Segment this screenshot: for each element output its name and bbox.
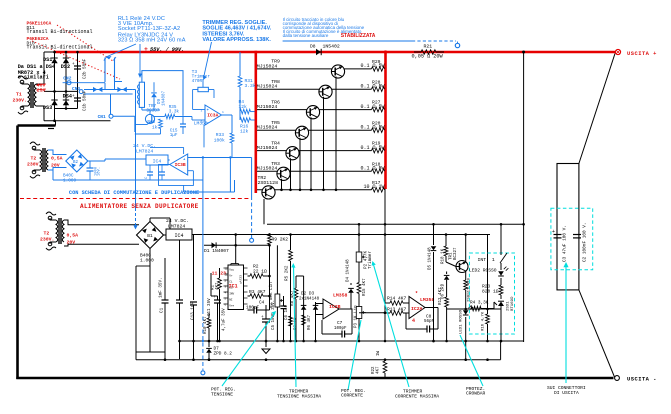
svg-text:D2 D3: D2 D3	[301, 292, 315, 297]
wire emitter red bus right	[384, 51, 387, 189]
svg-text:12k: 12k	[239, 104, 248, 110]
svg-text:0,05 Ω 20W: 0,05 Ω 20W	[412, 54, 444, 60]
svg-text:12: 12	[225, 268, 229, 271]
svg-text:3.3k: 3.3k	[245, 83, 256, 89]
svg-text:Transil Bi-directional: Transil Bi-directional	[27, 45, 93, 51]
wire TR8 collector drop	[323, 97, 325, 190]
rectifier bridge B1	[137, 222, 164, 249]
wire transil leader dotted 2	[32, 41, 120, 79]
svg-text:11: 11	[225, 274, 229, 277]
wire TR9 collector drop	[335, 77, 337, 190]
wire DS node column B	[65, 52, 67, 109]
IC4 regulator 7824	[166, 229, 192, 240]
svg-text:LED1 ROSSO: LED1 ROSSO	[460, 309, 464, 334]
svg-text:R12 4K7: R12 4K7	[439, 287, 443, 305]
svg-text:C6 1nF: C6 1nF	[285, 304, 289, 320]
svg-text:R16 4,7K: R16 4,7K	[482, 311, 486, 331]
trimmer P2 4.7K	[356, 252, 362, 262]
svg-text:DS4: DS4	[63, 93, 72, 99]
svg-text:16V.: 16V.	[98, 167, 102, 176]
diode DS3	[51, 100, 57, 105]
callout PROTEZ CROWBAR	[460, 335, 483, 386]
svg-text:100k: 100k	[214, 138, 225, 144]
wire blue dashdot x251	[251, 158, 253, 197]
wire rail 24V out	[164, 234, 167, 236]
svg-text:0.1 Ω 5W: 0.1 Ω 5W	[360, 125, 384, 131]
wire blue bottom rail dup	[53, 179, 203, 181]
svg-text:TR1: TR1	[450, 252, 454, 260]
transistor TR3 MJ15024	[277, 167, 290, 180]
resistor R10 4K7	[207, 318, 211, 328]
svg-text:0,5A: 0,5A	[67, 233, 79, 239]
svg-text:D4 1N4148: D4 1N4148	[347, 259, 351, 282]
transistor TR1 BC327	[456, 261, 468, 273]
svg-text:BC327: BC327	[454, 247, 458, 260]
svg-text:USCITA +: USCITA +	[627, 51, 657, 57]
transistor TR4 MJ15024	[286, 147, 299, 160]
resistor R12 4K7	[445, 297, 449, 307]
resistor R5 2K2	[289, 250, 293, 261]
svg-text:MJ15024: MJ15024	[257, 84, 278, 90]
diode DS1	[51, 58, 57, 63]
diode D8	[316, 49, 321, 55]
svg-text:R33: R33	[216, 132, 225, 138]
wire crowbar row	[447, 308, 501, 310]
svg-text:CN3: CN3	[72, 86, 80, 92]
wire TR4 collector drop	[290, 158, 292, 190]
svg-text:C8: C8	[426, 315, 432, 320]
svg-text:B1: B1	[147, 233, 153, 239]
transformer T2 (no duplicator)	[46, 212, 56, 215]
svg-text:0.1 Ω 5W: 0.1 Ω 5W	[360, 104, 384, 110]
IC1 uA723	[228, 265, 244, 310]
node CN2	[67, 81, 71, 85]
svg-text:-: -	[183, 172, 185, 176]
svg-text:DS3: DS3	[43, 105, 52, 111]
potentiometer P3 1K	[356, 307, 362, 319]
svg-text:TENSIONE: TENSIONE	[211, 392, 233, 398]
svg-text:INV: INV	[229, 292, 234, 295]
svg-text:R36: R36	[147, 120, 155, 125]
diode DS4	[63, 100, 69, 105]
svg-text:BT169D: BT169D	[511, 296, 515, 311]
svg-text:CS: CS	[229, 286, 233, 289]
SCR BT169D	[498, 302, 504, 307]
svg-text:R1: R1	[212, 284, 216, 290]
wire P3 wiper row	[359, 312, 385, 314]
svg-text:2: 2	[201, 121, 203, 124]
node USCITA - terminal	[615, 376, 620, 381]
wire CN1 row	[113, 115, 135, 117]
svg-text:STABILIZZATA: STABILIZZATA	[341, 33, 376, 39]
resistor R7 1K	[289, 316, 293, 326]
wire +V bus top	[55, 51, 616, 54]
wire TR5 collector drop	[299, 138, 301, 190]
resistor R6 4K7	[302, 315, 306, 325]
svg-text:R10 4K7: R10 4K7	[204, 316, 208, 334]
zener D7 ZPD8.2	[206, 349, 212, 353]
resistor R11 470	[464, 280, 468, 290]
wire upper rail	[267, 223, 524, 225]
svg-text:Trimmer: Trimmer	[368, 251, 373, 269]
svg-text:IC3B: IC3B	[175, 162, 186, 168]
svg-text:dalla tensione ausiliare: dalla tensione ausiliare	[283, 33, 329, 38]
potentiometer P1 50K	[275, 294, 280, 307]
svg-text:CROWBAR: CROWBAR	[466, 391, 486, 397]
svg-text:C2b 50mF: C2b 50mF	[83, 58, 88, 79]
svg-text:*: *	[415, 291, 418, 297]
wire emitter row R18	[257, 170, 372, 172]
svg-text:DS1: DS1	[43, 57, 52, 63]
capacitor C2 100nF	[573, 234, 581, 236]
wire blue bottom link	[183, 185, 185, 192]
leader TRIMMER to T3	[204, 42, 212, 78]
svg-text:1mF 35V.: 1mF 35V.	[159, 277, 164, 298]
capacitor C2b	[74, 65, 81, 67]
svg-text:CL: CL	[229, 280, 233, 283]
resistor R15 4K7	[357, 283, 361, 294]
resistor R16 4.7K	[486, 314, 490, 324]
diode D4 1N4148	[348, 289, 354, 293]
op-amp IC2A	[409, 297, 425, 319]
resistor R1	[218, 278, 222, 289]
node USCITA + terminal	[615, 49, 620, 54]
svg-text:2SD1128: 2SD1128	[258, 180, 279, 186]
svg-text:230V.: 230V.	[13, 98, 27, 104]
diode DS2	[63, 58, 69, 63]
svg-text:100pF: 100pF	[334, 327, 347, 331]
callout POT REG TENSIONE	[222, 313, 275, 386]
wire IC1 top pins	[231, 263, 239, 265]
resistor R27	[372, 107, 385, 112]
wire main vertical x385	[384, 189, 386, 341]
svg-text:T2: T2	[44, 231, 50, 237]
capacitor C3 47uF	[554, 234, 562, 236]
svg-text:12k: 12k	[240, 129, 249, 135]
wire B1 + output	[149, 218, 151, 222]
svg-text:D9: D9	[158, 98, 162, 104]
svg-text:LED2 ROSSO: LED2 ROSSO	[469, 268, 497, 274]
transistor TR8 MJ15024	[319, 85, 332, 98]
svg-text:1.000: 1.000	[63, 179, 77, 184]
svg-text:R9 2K2: R9 2K2	[272, 237, 289, 243]
svg-text:470R: 470R	[192, 79, 203, 84]
wire emitter row R19	[257, 150, 372, 152]
wire transil leader dotted 1	[57, 25, 113, 61]
svg-text:R5 2K2: R5 2K2	[285, 265, 290, 281]
rectifier bridge B2 blue	[66, 150, 88, 172]
svg-text:323 Ω 358 mH 24V 60 mA: 323 Ω 358 mH 24V 60 mA	[118, 37, 186, 43]
resistor R29	[372, 67, 385, 72]
resistor R9 2K2	[268, 235, 272, 245]
callout TRIMMER CORRENTE MASSIMA	[373, 263, 409, 387]
wire thick left border	[16, 126, 19, 380]
transistor TR6 MJ15024	[306, 106, 319, 119]
wire DS node column A	[54, 52, 56, 121]
svg-text:NI: NI	[229, 298, 233, 301]
op-amp IC2B	[323, 299, 339, 319]
svg-text:uA723: uA723	[240, 275, 243, 284]
svg-text:1k: 1k	[152, 126, 158, 131]
svg-text:20V: 20V	[67, 240, 76, 246]
svg-text:R10 1K: R10 1K	[442, 248, 446, 264]
svg-text:1N5402: 1N5402	[323, 44, 340, 50]
svg-text:25A: 25A	[37, 88, 46, 94]
svg-text:0.1 Ω 5W: 0.1 Ω 5W	[360, 166, 384, 172]
svg-text:MJ15024: MJ15024	[257, 125, 278, 131]
wire emitter row R29	[257, 68, 372, 70]
svg-text:C2 100nF 100 V.: C2 100nF 100 V.	[583, 222, 588, 262]
node CN3	[79, 90, 83, 94]
svg-text:LM358: LM358	[333, 293, 348, 299]
wire D1 branch	[204, 244, 270, 246]
svg-text:820 1Ω: 820 1Ω	[482, 289, 499, 295]
svg-text:10 Ω 1W: 10 Ω 1W	[363, 184, 384, 190]
svg-text:MJ15024: MJ15024	[257, 104, 278, 110]
wire thick bottom bus to USCITA -	[16, 377, 613, 380]
svg-text:Socket PT11-13F-3Z-A2: Socket PT11-13F-3Z-A2	[118, 26, 180, 32]
svg-text:+: +	[72, 94, 75, 99]
svg-text:+: +	[72, 62, 75, 67]
svg-text:R21: R21	[424, 43, 433, 49]
svg-text:CN1: CN1	[98, 114, 106, 120]
svg-text:INT. 1: INT. 1	[478, 257, 495, 263]
svg-text:-: -	[207, 121, 209, 125]
svg-text:0.1 Ω 5W: 0.1 Ω 5W	[360, 145, 384, 151]
ground symbol	[262, 349, 270, 354]
svg-text:MJ15024: MJ15024	[257, 63, 278, 69]
blue caps near IC4	[147, 171, 153, 173]
wire IC3B feedback	[188, 170, 194, 172]
op-amp IC3A	[205, 105, 222, 125]
op-amp IC3B	[170, 154, 188, 175]
resistor R10 1K	[444, 246, 448, 256]
wire IC3B top feed	[150, 146, 184, 148]
svg-text:230V.: 230V.	[27, 162, 41, 168]
svg-text:24 V.DC.: 24 V.DC.	[166, 218, 189, 224]
svg-text:R22: R22	[372, 366, 376, 374]
wire emitter row R27	[257, 109, 372, 111]
svg-text:R4 3,3K: R4 3,3K	[470, 301, 489, 306]
svg-text:LM7824: LM7824	[168, 223, 185, 229]
blue lower-left duplicator section	[30, 142, 40, 145]
callout POT REG CORRENTE	[348, 320, 361, 390]
wire diode bottom rail	[55, 108, 78, 110]
svg-text:IC2A: IC2A	[411, 306, 423, 312]
capacitor C6	[281, 305, 287, 307]
wire IC3A output	[222, 114, 233, 116]
svg-text:R15 4K7: R15 4K7	[363, 278, 367, 296]
wire blue drop to bridge	[135, 90, 137, 209]
callout SUI CONNETTORI arrow	[565, 264, 567, 383]
callout TRIMMER TENSIONE MASSIMA	[294, 265, 297, 387]
svg-text:T2: T2	[31, 156, 37, 162]
wire thick negative stub	[55, 121, 57, 126]
ground minus sign	[48, 128, 54, 130]
svg-text:C1b 50mF: C1b 50mF	[83, 90, 88, 111]
diode D5 1N4148	[433, 224, 435, 245]
svg-text:DI USCITA: DI USCITA	[554, 390, 579, 396]
box INT1 dashed	[469, 253, 514, 334]
svg-text:4K7: 4K7	[216, 282, 220, 290]
capacitor C13 1uF	[176, 299, 183, 301]
svg-text:20V: 20V	[51, 163, 60, 169]
svg-text:22 1Ω: 22 1Ω	[253, 269, 267, 275]
LED1 rosso	[463, 306, 473, 315]
svg-text:Transil Bi-directional: Transil Bi-directional	[27, 29, 93, 35]
wire cap column C	[77, 52, 79, 109]
svg-text:B2: B2	[73, 161, 79, 165]
capacitor C1 1uF	[149, 258, 151, 352]
svg-text:230V.: 230V.	[40, 237, 54, 243]
transistor TR5 MJ15024	[295, 126, 308, 139]
svg-text:0,5A: 0,5A	[51, 156, 63, 162]
junction dots rails	[192, 340, 195, 343]
resistor R17	[372, 188, 385, 193]
wire T2dup loops	[48, 150, 67, 155]
resistor R18	[372, 169, 385, 174]
svg-text:C7: C7	[337, 321, 343, 326]
svg-text:+: +	[552, 229, 555, 235]
svg-text:D8: D8	[310, 44, 316, 50]
wire TR3 collector drop	[281, 179, 283, 190]
svg-text:CON SCHEDA DI COMMUTAZIONE E D: CON SCHEDA DI COMMUTAZIONE E DUPLICAZION…	[69, 190, 199, 196]
wire collector red bus left	[255, 51, 258, 193]
svg-text:0.1 Ω 5W: 0.1 Ω 5W	[360, 63, 384, 69]
resistor R19	[372, 148, 385, 153]
capacitor C11	[214, 299, 221, 301]
svg-text:R14 4K7: R14 4K7	[387, 296, 407, 302]
resistor R16 12k	[240, 118, 251, 123]
wire T1 secondary to bridge	[44, 51, 56, 53]
diode D1 1N4007	[212, 242, 216, 248]
box output caps dashed	[551, 208, 593, 270]
svg-text:ALIMENTATORE SENZA DUPLICATORE: ALIMENTATORE SENZA DUPLICATORE	[80, 203, 199, 210]
diode D9 1N4007	[151, 93, 157, 97]
svg-text:Da DS1 a DS4: Da DS1 a DS4	[18, 64, 55, 70]
svg-text:MJ15024: MJ15024	[257, 145, 278, 151]
wire TR1 collector	[465, 235, 467, 262]
svg-text:R6 4K7: R6 4K7	[308, 314, 312, 330]
svg-text:P3 1K Lin: P3 1K Lin	[354, 305, 359, 328]
svg-text:IC2B: IC2B	[329, 304, 341, 310]
capacitor blue filter	[87, 167, 94, 169]
wire blue node row	[63, 82, 98, 84]
svg-text:IC4: IC4	[174, 233, 183, 239]
wire B2 out	[88, 160, 105, 162]
svg-text:VALORE APPROSS. 138K.: VALORE APPROSS. 138K.	[202, 37, 271, 43]
svg-text:4: 4	[412, 318, 415, 324]
transistor TR9 MJ15024	[331, 65, 344, 78]
capacitor C5 10uF	[262, 318, 270, 320]
svg-text:Vre: Vre	[229, 304, 234, 307]
svg-text:C4: C4	[259, 301, 265, 306]
svg-text:1.000: 1.000	[140, 258, 154, 264]
svg-text:R13 4K7: R13 4K7	[387, 307, 407, 313]
transformer T1	[18, 76, 28, 79]
svg-text:TENSIONE MASSIMA: TENSIONE MASSIMA	[277, 394, 321, 400]
wire blue T2dup vertical x202	[202, 158, 204, 311]
wire bottom rail upper-left	[44, 120, 111, 122]
wire mid rail	[44, 90, 78, 92]
svg-text:1μF: 1μF	[170, 133, 178, 138]
wire IC3B plus row	[188, 157, 252, 159]
svg-text:1: 1	[222, 111, 224, 114]
svg-text:DS2: DS2	[61, 64, 70, 70]
capacitor C1b	[74, 97, 81, 99]
svg-text:2SD1: 2SD1	[507, 301, 511, 311]
leader RL1 to contacts	[106, 44, 136, 57]
svg-text:1N4007: 1N4007	[163, 90, 167, 106]
svg-text:IC4: IC4	[153, 159, 162, 165]
svg-text:ZPD 8.2: ZPD 8.2	[214, 352, 233, 357]
svg-text:BC337: BC337	[147, 109, 160, 114]
relay RL1 coil	[139, 82, 144, 107]
svg-text:2x1N4148: 2x1N4148	[299, 298, 320, 302]
resistor R8 4K7	[294, 288, 298, 299]
wire TR6 collector drop	[310, 117, 312, 190]
svg-text:MJ15024: MJ15024	[257, 166, 278, 172]
resistor R22 4K7	[383, 361, 387, 373]
svg-text:+: +	[144, 46, 148, 53]
svg-text:+: +	[261, 315, 264, 320]
wire blue riser to CN area	[203, 125, 205, 147]
svg-text:T1: T1	[16, 92, 22, 98]
svg-text:CORRENTE: CORRENTE	[341, 393, 363, 399]
wire bottom rails	[136, 351, 165, 353]
node CN1	[109, 114, 113, 118]
svg-text:4K7: 4K7	[377, 366, 381, 374]
svg-text:LM7824: LM7824	[136, 149, 153, 155]
svg-text:1W: 1W	[377, 350, 381, 356]
svg-text:V+: V+	[229, 274, 233, 277]
svg-text:IC3A: IC3A	[207, 113, 218, 119]
svg-text:o similari: o similari	[18, 75, 49, 81]
diode D6	[444, 276, 450, 280]
connector block output	[557, 164, 579, 290]
wire emitter row R20	[257, 129, 372, 131]
wire emitter row R28	[257, 88, 372, 90]
svg-text:C3 47uF 100 V.: C3 47uF 100 V.	[563, 225, 568, 262]
relay RL1 contacts	[104, 58, 106, 83]
wire emitter row R17	[257, 189, 372, 191]
svg-text:D5 1N4148: D5 1N4148	[429, 247, 433, 270]
resistor R28	[372, 87, 385, 92]
connector CN3 diodes	[93, 87, 97, 92]
svg-text:55V. / 99V.: 55V. / 99V.	[150, 47, 184, 53]
wire T2 secondary loop	[64, 220, 139, 225]
svg-text:LM358: LM358	[420, 297, 435, 303]
svg-text:0.1 Ω 5W: 0.1 Ω 5W	[360, 84, 384, 90]
svg-text:Vcc: Vcc	[229, 268, 234, 271]
wire relay box	[142, 71, 183, 116]
svg-text:USCITA -: USCITA -	[627, 377, 657, 383]
wire B1 - output	[149, 249, 151, 259]
svg-text:4,7uF 35V: 4,7uF 35V	[223, 308, 227, 331]
wire diagonal to USCITA-	[579, 290, 615, 377]
svg-text:C1: C1	[160, 307, 165, 313]
svg-text:D1 1N4007: D1 1N4007	[204, 248, 229, 254]
wire right vertical from +bus	[523, 52, 525, 342]
svg-text:CN2: CN2	[63, 76, 71, 82]
wire red dashed separator	[20, 198, 250, 200]
svg-text:CORRENTE MASSIMA: CORRENTE MASSIMA	[395, 394, 439, 400]
wire TR2 collector drop	[263, 199, 265, 224]
wire blue link to sense	[234, 180, 236, 192]
svg-text:56pF: 56pF	[424, 320, 435, 324]
wire diagonal to USCITA+	[579, 54, 615, 164]
resistor R20	[372, 128, 385, 133]
